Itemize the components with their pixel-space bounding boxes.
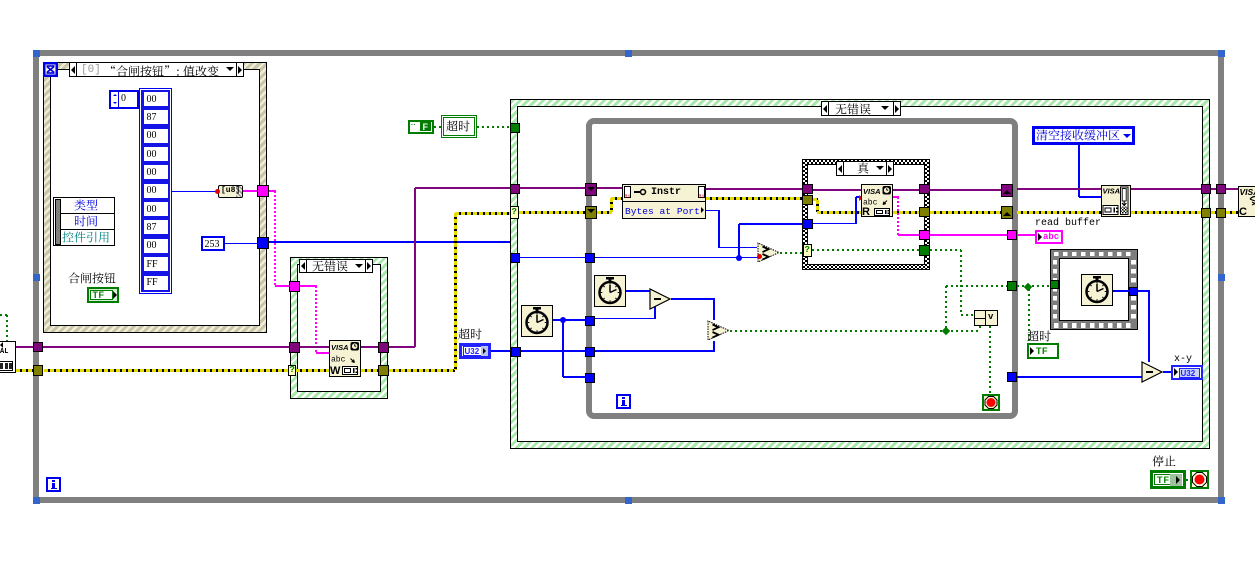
tunnels on inner case left (802, 184, 813, 194)
right shift register (VISA) (1001, 184, 1013, 197)
outer loop iteration terminal i (46, 477, 61, 492)
flat sequence structure (film frame) (1050, 249, 1138, 330)
error tunnel on outer loop border (33, 365, 43, 376)
wire ring to VISA flush (1078, 145, 1080, 197)
string wire from event tunnel down to small case (269, 190, 276, 192)
string wire VISA read to pink tunnel (893, 196, 899, 198)
array index display (109, 90, 139, 109)
big case structure 无错误 (510, 99, 1210, 449)
wires inside inner case (813, 189, 861, 191)
wire subtract to comparison (671, 298, 715, 300)
event structure timeout hourglass terminal (43, 62, 58, 77)
boolean control terminal 合闸按钮 TF (87, 287, 119, 303)
property node Instr / Bytes at Port (622, 184, 706, 219)
VISA Write function icon (329, 340, 361, 377)
VISA close icon (clipped at edge) (1238, 186, 1255, 217)
Bytes at Port value wire to comparison (706, 210, 720, 212)
junction diamond outside loop (1023, 282, 1031, 290)
coercion dot on [u8] (215, 189, 220, 194)
partially visible VISA/error controls at left edge (0, 341, 16, 373)
label read buffer (1035, 218, 1101, 229)
right shift register (error) (1001, 206, 1013, 219)
boolean wire comparison to case selector (780, 252, 802, 254)
253 wire to comparison and case (595, 257, 762, 259)
label 超时 (timeout indicator) (1027, 330, 1052, 345)
green dotted wire at far left (0, 314, 8, 316)
small case structure 无错误 (VISA write) (290, 257, 388, 399)
svg-text:W: W (330, 365, 341, 377)
svg-text:VISA: VISA (863, 187, 881, 196)
wire hourglass to event header (57, 69, 70, 70)
string wire inside small case to VISA write (300, 285, 317, 287)
label x-y (1174, 354, 1192, 365)
VISA Read function icon (861, 184, 893, 217)
string tunnel on small case (289, 281, 300, 292)
error tunnel small case right (378, 365, 389, 376)
253 wire into loop (520, 257, 586, 259)
left shift register (error) (585, 206, 597, 219)
sequence input tunnel (1050, 280, 1059, 289)
coercion dot on comparison (757, 254, 762, 259)
VISA tunnel on outer loop border (33, 342, 43, 352)
main error wire from left edge (16, 369, 33, 372)
numeric indicator U32 x-y (1171, 365, 1203, 380)
VISA wire loop to flush (1017, 188, 1101, 190)
boolean wire to flat sequence (1017, 285, 1050, 287)
VISA wire small case to big case (389, 346, 415, 348)
big case header 无错误 (821, 101, 901, 116)
tick count clock (start time) (521, 305, 553, 337)
wire stop button to terminal (1186, 479, 1191, 481)
stop button icon (1190, 470, 1209, 489)
byte array to string node [u8] (218, 185, 243, 198)
string indicator read buffer abc (1035, 230, 1063, 244)
VISA wire into loop shift register (520, 187, 586, 189)
wire clock1 branches (553, 319, 586, 321)
error wire small case to big case (389, 369, 455, 372)
main VISA resource wire from left edge (16, 346, 33, 348)
wires into property node (597, 187, 622, 189)
numeric tunnel on event structure border (257, 237, 269, 249)
boolean timeout wire to junction (730, 330, 946, 332)
boolean false constant (408, 120, 434, 134)
boolean wire or to loop condition (989, 326, 991, 394)
svg-text:R: R (862, 206, 870, 217)
svg-text:C: C (1239, 206, 1247, 217)
VISA flush buffer icon (1101, 185, 1131, 217)
boolean control terminal 停止 TF (1150, 470, 1186, 489)
greater-or-equal comparison (bytes >= 253) (757, 242, 781, 263)
boolean wire to loop tunnel (946, 285, 1007, 287)
loop condition stop terminal (982, 394, 1000, 411)
inner case header 真 (836, 161, 894, 176)
ring constant 清空接收缓冲区 (1032, 126, 1135, 145)
wire U32 to big case (491, 350, 512, 352)
numeric constant 253 (201, 236, 225, 251)
error wire into small case selector (288, 365, 296, 376)
wire loop tunnel (start time) to subtract (595, 318, 656, 320)
tunnels on big case left border (510, 123, 520, 133)
error wire loop to flush (1017, 211, 1101, 214)
wire u32 limit to comparison (595, 350, 715, 352)
tunnels on inner case right (919, 184, 930, 194)
wire array element to [u8] conversion (172, 191, 218, 193)
label 合闸按钮 (68, 272, 117, 287)
wires out of property node (706, 188, 802, 190)
inner while loop border (586, 118, 1018, 419)
wire timeout label to big case tunnel (477, 126, 510, 128)
string wire to read buffer indicator (930, 234, 1007, 236)
event structure border (43, 62, 267, 333)
numeric control terminal U32 (timeout value) (459, 343, 491, 359)
greater-or-equal comparison (timeout) (707, 320, 731, 341)
wire subtract to U32 indicator (1163, 371, 1172, 373)
u32 wire into loop (521, 350, 586, 352)
inner case structure 真 (boolean) (802, 159, 930, 270)
svg-text:VISA: VISA (1103, 187, 1121, 196)
outer loop resize handles (33, 50, 40, 57)
boolean indicator 超时 TF (1027, 343, 1059, 359)
event structure header [0] "合闸按钮": 值改变 (69, 62, 244, 77)
left shift register (VISA) (585, 183, 597, 196)
labelled wire 超时 (timeout) (441, 115, 477, 138)
wire 253 to event tunnel (225, 243, 257, 245)
svg-text:VISA: VISA (331, 343, 349, 352)
blue wire loop to subtract x-y (1017, 376, 1142, 378)
array of U8 hex constants (139, 88, 172, 294)
label 超时 for U32 control (458, 328, 483, 343)
wire F constant to timeout label (434, 126, 441, 128)
event data node (type/time/ctlref) (53, 197, 115, 246)
VISA and error wires flush to case edge (1131, 188, 1201, 190)
tick count clock in sequence (1081, 274, 1113, 306)
subtract function (elapsed) (649, 288, 672, 310)
outer while loop border (33, 50, 1224, 503)
wire clock2 to subtract (626, 290, 650, 292)
tunnels on outer loop right border (1216, 184, 1226, 194)
wire clock3 out of sequence (1113, 290, 1129, 292)
timeout elapsed clock (594, 275, 626, 307)
junction diamond (942, 326, 950, 334)
VISA wire through small case (289, 342, 300, 353)
svg-text:abc: abc (331, 356, 346, 365)
boolean wire out of inner case (930, 249, 961, 251)
inner loop iteration terminal i (616, 394, 631, 409)
svg-text:VISA: VISA (1240, 187, 1255, 197)
label 停止 (1152, 455, 1177, 470)
tunnels on big case right border (1201, 184, 1211, 194)
subtract function x-y (1141, 361, 1164, 383)
string tunnel on event structure border (243, 190, 257, 192)
small case header 无错误 (299, 259, 373, 273)
wire 253 event tunnel to big case (269, 241, 510, 243)
or function (974, 310, 998, 326)
loop shift wires (VISA / error) to right border (930, 189, 1001, 191)
error wire into loop shift register (519, 211, 586, 214)
